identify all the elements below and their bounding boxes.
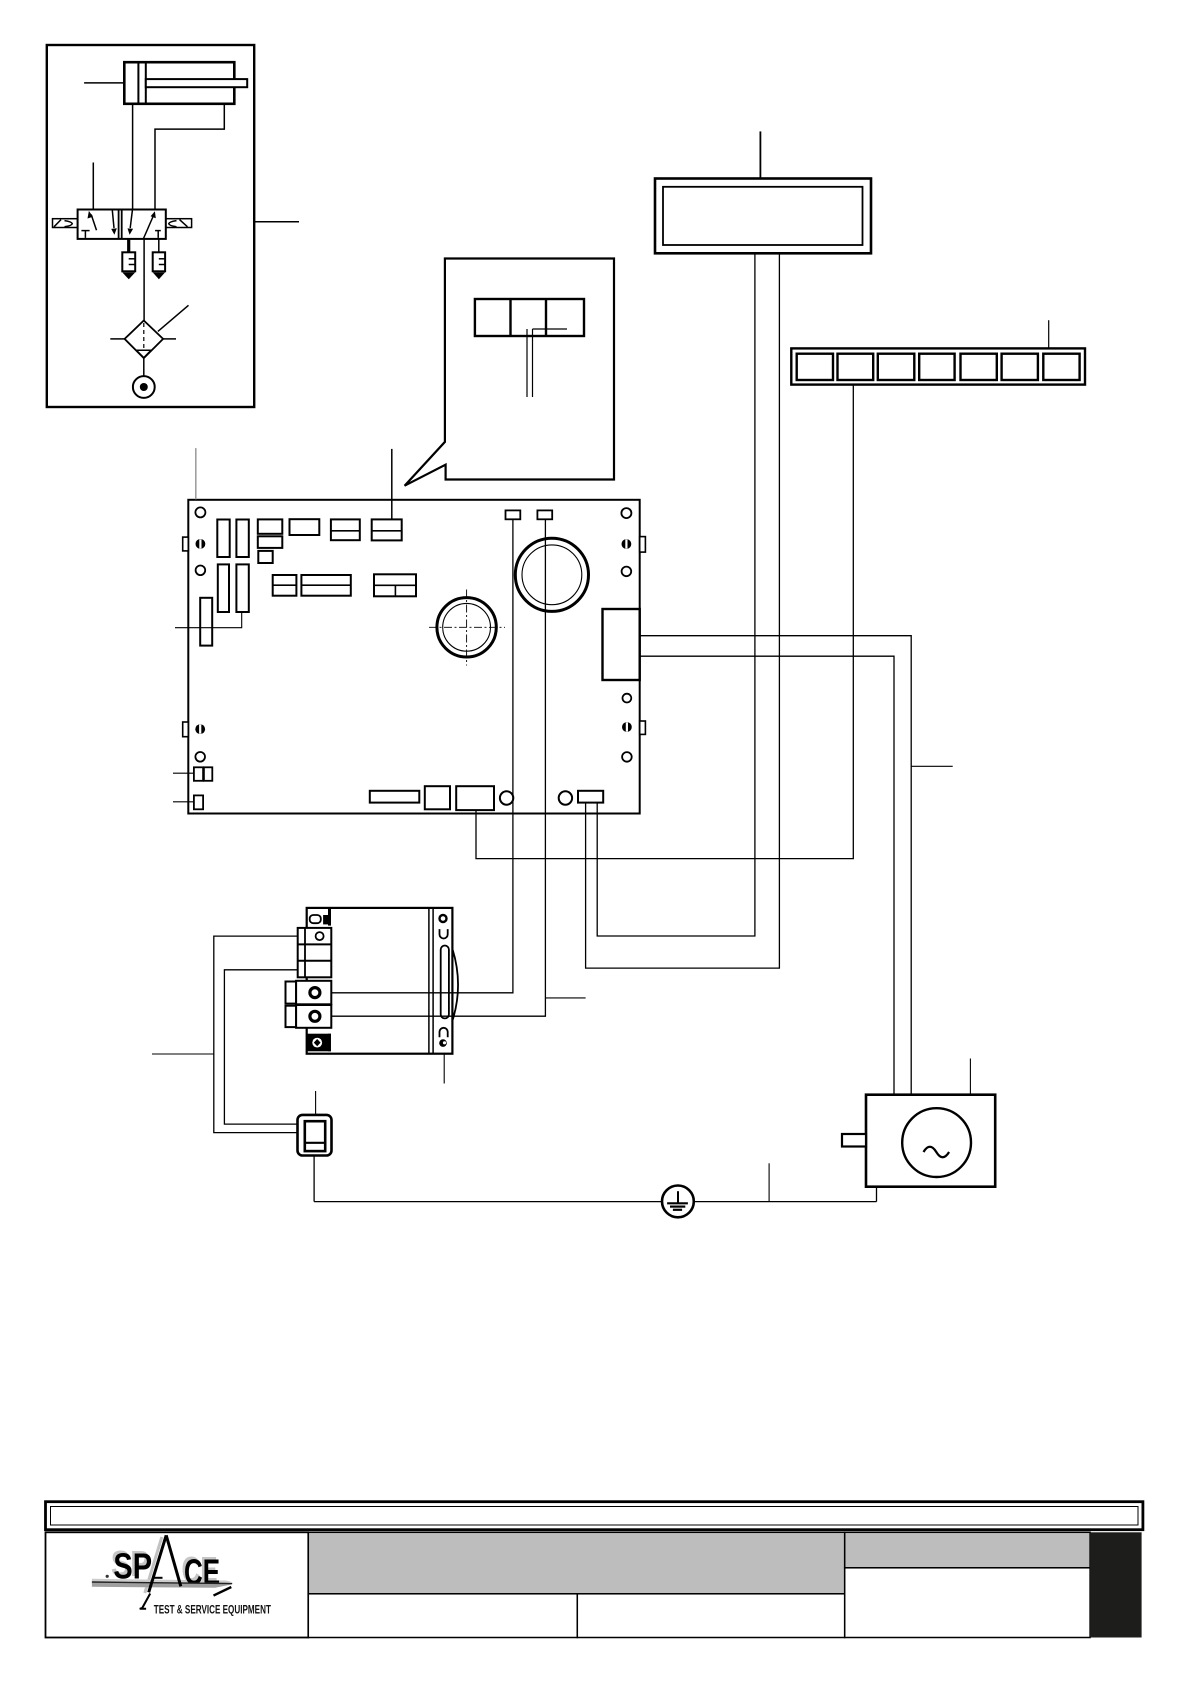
svg-text:TEST & SERVICE EQUIPMENT: TEST & SERVICE EQUIPMENT bbox=[154, 1602, 272, 1616]
svg-text:SP: SP bbox=[113, 1545, 152, 1586]
